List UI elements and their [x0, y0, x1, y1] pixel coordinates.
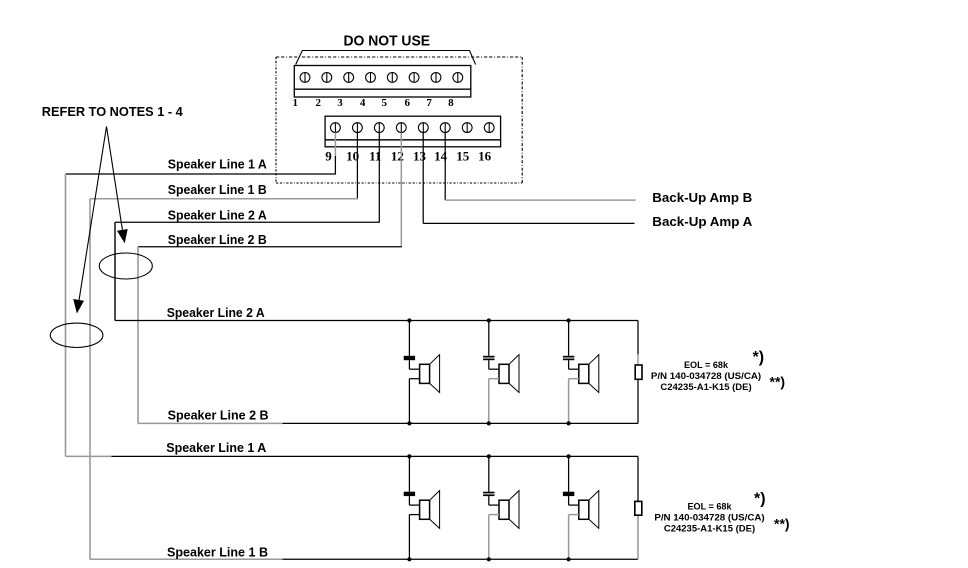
svg-text:5: 5 [382, 97, 388, 109]
screw terminal 5 [387, 73, 397, 83]
terminal block TB-lower, pins 9-16 [325, 116, 501, 147]
svg-text:4: 4 [360, 97, 366, 109]
screw terminal 1 [300, 73, 310, 83]
capacitor C4 [404, 492, 415, 496]
wire speaker LS3 return [569, 379, 579, 424]
svg-text:**): **) [774, 516, 790, 532]
svg-text:C24235-A1-K15 (DE): C24235-A1-K15 (DE) [660, 382, 751, 393]
speaker LS1 [420, 355, 440, 393]
ellipse loop around line 1 pair [50, 323, 103, 347]
junction dot line2 branch 3 top [567, 318, 571, 322]
capacitor C5 [483, 492, 494, 496]
screw terminal 15 [462, 123, 472, 133]
screw terminal 14 [440, 123, 450, 133]
wire pin 10 drop [356, 133, 358, 199]
bracket over unused terminal block [296, 51, 476, 65]
wire speaker line 1 A horizontal (upper) [66, 173, 336, 175]
svg-text:Speaker Line 2 B: Speaker Line 2 B [168, 407, 269, 422]
junction dot line2 branch 1 bottom [407, 421, 411, 425]
svg-text:9: 9 [325, 148, 332, 163]
capacitor C1 [404, 356, 415, 360]
wire speaker LS2 return [489, 379, 499, 424]
speaker LS4 [420, 491, 440, 529]
wire speaker line 2 A horizontal (upper) [115, 221, 380, 223]
svg-text:Speaker Line 1 B: Speaker Line 1 B [168, 182, 267, 197]
screw terminal 13 [418, 123, 428, 133]
ellipse loop around line 2 pair [99, 253, 152, 279]
svg-text:Speaker Line 2 A: Speaker Line 2 A [168, 207, 268, 222]
arrow to speaker line 1 pair [73, 127, 106, 314]
capacitor C6 [563, 492, 574, 496]
svg-text:REFER TO NOTES 1 - 4: REFER TO NOTES 1 - 4 [42, 104, 184, 119]
capacitor C2 [483, 356, 494, 360]
svg-text:16: 16 [478, 148, 492, 163]
wire speaker line 1 A bus (lower group) [66, 455, 639, 457]
wire speaker LS6 return [569, 515, 579, 560]
junction dot line1 branch 1 bottom [407, 557, 411, 561]
svg-text:Speaker Line 1 A: Speaker Line 1 A [168, 156, 268, 171]
resistor EOL R2 (68k, line 1) [635, 501, 642, 515]
wire speaker LS1 return [409, 379, 419, 424]
svg-text:13: 13 [413, 148, 427, 163]
svg-text:*): *) [753, 349, 765, 366]
junction dot line1 branch 3 bottom [567, 557, 571, 561]
svg-text:Back-Up Amp A: Back-Up Amp A [652, 214, 753, 229]
wire cap to speaker LS1 [409, 360, 419, 369]
svg-text:Speaker Line 1 B: Speaker Line 1 B [167, 545, 268, 560]
wire line2 branch 1 drop [408, 321, 410, 356]
terminal block TB-upper (do not use), pins 1-8 [294, 66, 471, 98]
svg-text:Speaker Line 2 A: Speaker Line 2 A [167, 305, 266, 320]
junction dot line2 branch 2 bottom [487, 421, 491, 425]
speaker LS6 [579, 491, 599, 529]
wire cap to speaker LS6 [569, 496, 579, 505]
wire line1 branch 3 drop [568, 456, 570, 491]
wire pin 11 drop [378, 133, 380, 223]
screw terminal 2 [322, 73, 332, 83]
wire cap to speaker LS2 [489, 360, 499, 369]
wire cap to speaker LS5 [489, 496, 499, 505]
svg-text:15: 15 [456, 148, 470, 163]
svg-text:Speaker Line 1 A: Speaker Line 1 A [166, 440, 267, 455]
wire EOL branch (line 1) [637, 456, 639, 559]
wire speaker line 1 B bus (lower group) [90, 558, 638, 560]
svg-text:P/N 140-034728 (US/CA): P/N 140-034728 (US/CA) [651, 371, 761, 382]
screw terminal 4 [366, 73, 376, 83]
wire pin 13 to Back-Up Amp A [423, 133, 634, 224]
wire line1 branch 1 drop [408, 456, 410, 491]
junction dot line2 branch 3 bottom [567, 421, 571, 425]
screw terminal 9 [331, 123, 341, 133]
screw terminal 6 [409, 73, 419, 83]
junction dot line1 branch 3 top [567, 454, 571, 458]
wire cap to speaker LS3 [569, 360, 579, 369]
dash-dot enclosure box [276, 57, 522, 183]
svg-text:P/N 140-034728 (US/CA): P/N 140-034728 (US/CA) [654, 513, 764, 524]
screw terminal 7 [431, 73, 441, 83]
wire speaker line 2 B left vertical rail [137, 247, 139, 424]
svg-text:7: 7 [426, 97, 432, 109]
svg-text:3: 3 [337, 97, 343, 109]
screw terminal 12 [396, 123, 406, 133]
svg-text:Speaker Line 2 B: Speaker Line 2 B [168, 232, 267, 247]
svg-text:Back-Up Amp B: Back-Up Amp B [652, 190, 752, 205]
speaker LS3 [579, 355, 599, 393]
screw terminal 3 [344, 73, 354, 83]
speaker LS5 [499, 491, 519, 529]
wire speaker line 2 A left vertical rail [114, 222, 116, 320]
svg-text:1: 1 [293, 97, 299, 109]
wire pin 12 drop [400, 133, 402, 247]
wire EOL branch (line 2) [637, 321, 639, 424]
wire speaker LS4 return [409, 515, 419, 560]
pin numbers 9-16 [325, 148, 491, 163]
speaker LS2 [499, 355, 519, 393]
junction dot line1 branch 2 bottom [487, 557, 491, 561]
svg-text:DO NOT USE: DO NOT USE [344, 33, 431, 50]
screw terminal 11 [374, 123, 384, 133]
svg-text:**): **) [770, 374, 786, 390]
svg-text:C24235-A1-K15 (DE): C24235-A1-K15 (DE) [664, 523, 755, 534]
screw terminal 10 [353, 123, 363, 133]
wire speaker line 1 A left vertical rail [65, 174, 67, 456]
wire speaker line 1 B horizontal (upper) [90, 198, 358, 200]
screw terminal 8 [453, 73, 463, 83]
wire speaker line 2 B horizontal (upper) [138, 246, 402, 248]
arrow to speaker line 2 pair [107, 127, 128, 244]
wire speaker line 2 A bus (upper group) [115, 320, 638, 322]
svg-text:8: 8 [448, 97, 454, 109]
junction dot line1 branch 2 top [487, 454, 491, 458]
svg-text:6: 6 [405, 97, 411, 109]
screw terminal 16 [484, 123, 494, 133]
svg-text:EOL = 68k: EOL = 68k [688, 501, 733, 512]
wire speaker line 2 B bus (upper group) [138, 422, 638, 424]
wire pin 14 to Back-Up Amp B [445, 133, 635, 201]
pin numbers 1-8 [293, 97, 455, 109]
resistor EOL R1 (68k, line 2) [635, 365, 642, 379]
wire speaker LS5 return [489, 515, 499, 560]
capacitor C3 [563, 356, 574, 360]
wire line1 branch 2 drop [488, 456, 490, 491]
svg-text:2: 2 [315, 97, 321, 109]
wire speaker line 1 B left vertical rail [89, 199, 91, 560]
svg-text:EOL = 68k: EOL = 68k [684, 360, 729, 371]
wire line2 branch 2 drop [488, 321, 490, 356]
wire pin 9 drop [334, 133, 336, 175]
junction dot line1 branch 1 top [407, 454, 411, 458]
wire line2 branch 3 drop [568, 321, 570, 356]
wire cap to speaker LS4 [409, 496, 419, 505]
junction dot line2 branch 1 top [407, 318, 411, 322]
junction dot line2 branch 2 top [487, 318, 491, 322]
svg-text:*): *) [754, 491, 766, 508]
